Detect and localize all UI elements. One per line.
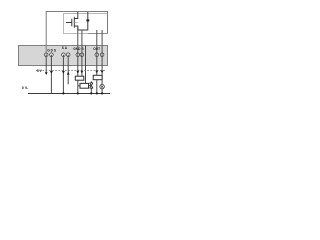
junction dot A (62, 92, 64, 94)
wire top rail (46, 12, 107, 55)
wire pin5 drop (source to header) (77, 26, 79, 55)
connector J1 pin circle 2 (50, 53, 54, 57)
wire pin7 drop (96, 30, 98, 55)
transistor Q1 channel bar (73, 17, 75, 28)
wire lamp to bus (101, 89, 103, 94)
junction dot D (96, 92, 98, 94)
resistor R3 (93, 75, 102, 79)
zener D2 symbol (90, 83, 93, 88)
diode D1 body-diode branch wire (78, 12, 88, 30)
svg-text:GND G: GND G (73, 47, 84, 51)
wire R2 left tap (78, 85, 80, 87)
arrow on pin6 wire (81, 71, 84, 74)
arrow on pin5 wire (76, 71, 79, 74)
wire drain rail along box bottom (88, 33, 108, 35)
junction dot C (90, 92, 92, 94)
connector J1 pin circle 8 (100, 53, 104, 57)
ground bus wire (28, 93, 110, 95)
lamp LS1 cross (101, 86, 103, 88)
arrow on pin8 wire (101, 71, 104, 74)
connector J1 pin circle 7 (95, 53, 99, 57)
wire pin1 below with arrow (45, 55, 47, 73)
wire pin7 to resistor R3 (96, 55, 98, 76)
wire pin8 to lamp (101, 55, 103, 85)
connector J1 pin circle 6 (80, 53, 84, 57)
transistor Q1 drain stub (74, 12, 78, 19)
wire pin3 to ground bus (62, 55, 64, 94)
wire R1 bottom to bus (77, 80, 79, 93)
wire pin6 to resistor R1 (81, 55, 83, 76)
svg-text:G D S: G D S (47, 48, 56, 52)
wire pin4 stub (67, 55, 69, 85)
connector J1 pin circle 1 (44, 53, 48, 57)
arrow on pin2 wire (50, 71, 53, 74)
resistor R2 (80, 83, 89, 88)
zener D2 lead wire (90, 81, 92, 93)
wire pin5 to resistor R1 (77, 55, 79, 76)
wire pin6 drop (81, 30, 83, 55)
arrow on pin3 wire (62, 71, 65, 74)
connector J1 pin circle 5 (76, 53, 80, 57)
lamp LS1 (100, 84, 104, 88)
svg-text:5 V: 5 V (37, 69, 43, 73)
arrow on pin7 wire (95, 71, 98, 74)
connector J1 pin circle 3 (62, 53, 66, 57)
transistor Q1 gate bar (71, 19, 73, 27)
wire pin9 (no circle) through header (85, 46, 87, 84)
transistor Q1 gate stub wire (66, 22, 72, 24)
resistor R1 (75, 76, 84, 80)
transistor Q1 source stub (74, 26, 78, 30)
diode D1 symbol (86, 19, 89, 21)
wire R3 to bus (96, 80, 98, 94)
transistor Q1 body stub (74, 22, 78, 24)
svg-text:S A: S A (62, 46, 68, 50)
wire R2 right to zener (89, 85, 91, 87)
arrow up on pin4 wire (67, 72, 70, 75)
junction dot E (101, 92, 103, 94)
dashed boundary line (36, 70, 106, 72)
component body U1 (MOSFET module outline) (64, 14, 108, 34)
net label 0V symbol (26, 87, 29, 89)
wire pin8 drop (101, 30, 103, 55)
connector J1 header body (19, 46, 108, 66)
junction dot B (77, 92, 79, 94)
wire pin2 to ground bus (50, 55, 52, 94)
arrow on 5V wire (45, 72, 48, 75)
connector J1 pin circle 4 (66, 53, 70, 57)
